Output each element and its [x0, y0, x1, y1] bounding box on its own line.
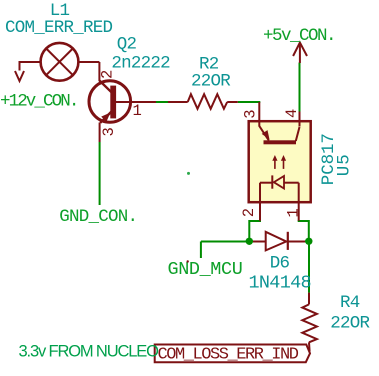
wire	[200, 242, 202, 259]
svg-text:+5v_CON.: +5v_CON.	[263, 26, 335, 46]
junction node	[246, 238, 253, 245]
svg-text:U5: U5	[335, 153, 355, 176]
svg-text:3: 3	[100, 127, 118, 136]
svg-text:D6: D6	[270, 254, 290, 274]
wire	[249, 221, 261, 242]
svg-text:2n2222: 2n2222	[111, 54, 170, 74]
U5 light arrows	[272, 155, 286, 169]
resistor R2	[168, 94, 238, 109]
wire	[308, 242, 310, 293]
optocoupler U5 body	[249, 121, 311, 202]
wire	[201, 241, 309, 243]
svg-text:22OR: 22OR	[330, 314, 370, 334]
wire	[238, 101, 260, 103]
svg-text:1N4148: 1N4148	[249, 273, 311, 294]
wire	[298, 221, 309, 242]
U5 pin 3	[258, 102, 260, 127]
svg-text:1: 1	[133, 102, 142, 120]
transistor Q2	[89, 62, 156, 142]
svg-text:COM_ERR_RED: COM_ERR_RED	[5, 18, 113, 38]
svg-text:COM_LOSS_ERR_IND: COM_LOSS_ERR_IND	[158, 346, 299, 365]
lamp L1	[20, 43, 100, 81]
speck	[187, 172, 190, 175]
wire	[156, 101, 168, 103]
speck	[187, 260, 189, 262]
svg-text:2: 2	[240, 208, 258, 217]
U5 pin 4	[299, 112, 301, 127]
U5 phototransistor	[259, 126, 299, 144]
U5 LED and pins 1,2	[260, 175, 299, 220]
wire	[99, 142, 101, 205]
junction node	[305, 238, 312, 245]
svg-text:2: 2	[99, 70, 117, 79]
wire	[299, 63, 301, 113]
svg-text:3.3v FROM NUCLEO: 3.3v FROM NUCLEO	[19, 343, 160, 361]
+5v supply arrow	[293, 43, 307, 64]
diode D6	[253, 232, 305, 251]
svg-text:1: 1	[285, 208, 303, 217]
svg-text:22OR: 22OR	[191, 72, 231, 92]
net flag COM_LOSS_ERR_IND	[155, 345, 310, 363]
svg-text:Q2: Q2	[117, 35, 137, 55]
svg-text:GND_CON.: GND_CON.	[59, 207, 137, 227]
svg-text:4: 4	[283, 109, 301, 118]
svg-text:R4: R4	[340, 293, 360, 313]
svg-text:GND_MCU: GND_MCU	[168, 259, 243, 280]
resistor R4	[302, 293, 317, 352]
svg-text:+12v_CON.: +12v_CON.	[0, 92, 77, 112]
+12v supply arrow	[15, 71, 24, 81]
svg-text:3: 3	[242, 110, 260, 119]
